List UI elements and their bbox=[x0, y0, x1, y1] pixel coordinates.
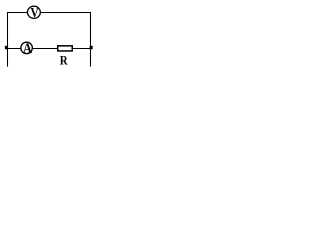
ammeter label A bbox=[23, 40, 32, 56]
resistor R body bbox=[58, 46, 73, 51]
svg-text:A: A bbox=[23, 40, 32, 56]
wire bottom horizontal (ammeter/resistor branch) bbox=[7, 48, 91, 50]
svg-text:V: V bbox=[30, 5, 39, 20]
resistor label R bbox=[60, 52, 68, 67]
svg-text:R: R bbox=[60, 52, 68, 67]
wire left vertical bbox=[7, 12, 9, 67]
ammeter A meter circle bbox=[21, 42, 32, 54]
junction dot right bbox=[90, 46, 93, 50]
junction dot left bbox=[5, 46, 8, 50]
voltmeter label V bbox=[30, 5, 39, 20]
voltmeter V meter circle bbox=[27, 6, 40, 18]
wire top horizontal bbox=[7, 12, 91, 14]
wire right vertical bbox=[90, 12, 92, 67]
